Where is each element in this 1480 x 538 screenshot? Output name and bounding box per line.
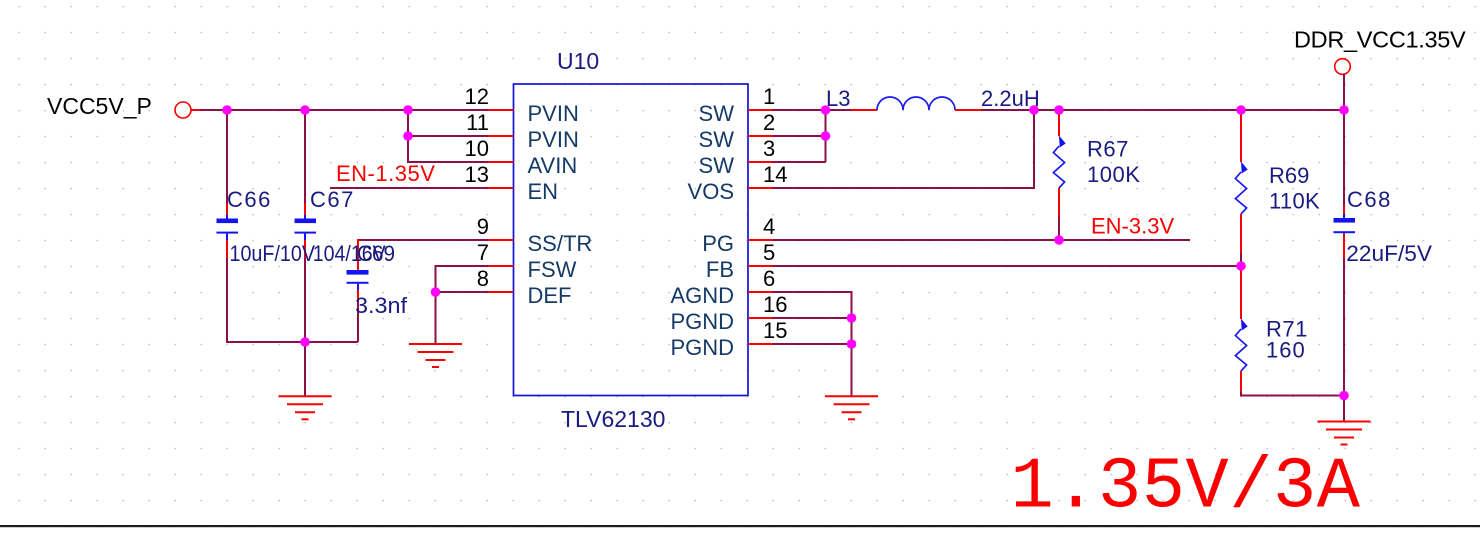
svg-text:EN-1.35V: EN-1.35V — [336, 161, 435, 186]
wire DDR_VCC terminal drop — [1343, 74, 1345, 110]
wire C66 top lead — [226, 110, 228, 203]
pin numbers left side — [465, 84, 489, 291]
pin numbers right side — [763, 84, 787, 343]
node junction (1241,266) — [1236, 261, 1246, 271]
wire PG net y=240 — [773, 239, 1190, 241]
wire VCC5V_P terminal stub — [191, 109, 201, 111]
svg-text:AVIN: AVIN — [528, 153, 578, 178]
svg-text:SW: SW — [699, 127, 735, 152]
svg-text:16: 16 — [763, 292, 787, 317]
svg-text:10uF/10V: 10uF/10V — [230, 241, 316, 266]
inductor L3 — [826, 86, 1040, 111]
svg-text:13: 13 — [465, 162, 489, 187]
node junction (435,292) — [431, 287, 441, 297]
wire to ground x=1344 — [1343, 395, 1345, 422]
svg-text:VCC5V_P: VCC5V_P — [47, 93, 152, 119]
svg-text:160: 160 — [1266, 338, 1306, 363]
resistor R69 — [1235, 110, 1320, 253]
wire AGND net pin6 — [773, 292, 852, 396]
svg-text:PVIN: PVIN — [528, 101, 579, 126]
wire C68 bottom lead — [1343, 234, 1345, 258]
svg-text:8: 8 — [477, 266, 489, 291]
svg-text:DDR_VCC1.35V: DDR_VCC1.35V — [1294, 27, 1466, 53]
svg-text:SW: SW — [699, 101, 735, 126]
node junction (1059,240) — [1054, 235, 1064, 245]
wire SS/TR net y=240 — [358, 239, 488, 241]
wire PVIN pin11 horizontal — [408, 135, 488, 137]
wire C69 bottom lead — [357, 285, 359, 300]
node junction (1344,395) — [1339, 391, 1349, 401]
svg-text:7: 7 — [477, 240, 489, 265]
svg-text:PG: PG — [702, 231, 734, 256]
power port DDR_VCC1.35V terminal circle — [1335, 59, 1351, 75]
resistor R67 — [1053, 110, 1140, 217]
ground GND3 — [825, 396, 878, 419]
op-amp U10 IC body TLV62130 — [514, 84, 749, 396]
resistor R71 — [1235, 267, 1307, 392]
wire EN net y=188 — [330, 187, 488, 189]
node junction (825,136) — [821, 131, 831, 141]
sheet border bottom line — [0, 525, 1480, 527]
svg-text:1.35V/3A: 1.35V/3A — [1011, 447, 1361, 529]
node junction (825,110) — [821, 105, 831, 115]
wire output rail y=110 — [982, 109, 1344, 111]
svg-text:PVIN: PVIN — [528, 127, 579, 152]
svg-text:11: 11 — [466, 110, 489, 135]
node junction (408,110) — [403, 105, 413, 115]
capacitor C68 — [1334, 187, 1433, 266]
node junction (851,344) — [847, 339, 857, 349]
wire PGND pin15 — [773, 343, 852, 345]
node junction (227,110) — [222, 105, 232, 115]
svg-text:3: 3 — [763, 136, 775, 161]
svg-text:R69: R69 — [1269, 163, 1309, 188]
svg-text:C66: C66 — [227, 187, 272, 212]
svg-text:1: 1 — [763, 84, 775, 109]
pin names right side — [670, 101, 734, 360]
wire C68 top lead — [1343, 110, 1345, 206]
svg-text:110K: 110K — [1269, 189, 1320, 214]
pin stubs right side U10 — [748, 110, 774, 344]
svg-text:DEF: DEF — [528, 283, 572, 308]
svg-text:SW: SW — [699, 153, 735, 178]
svg-text:TLV62130: TLV62130 — [561, 406, 665, 432]
svg-text:4: 4 — [763, 214, 775, 239]
node junction (1034,110) — [1029, 105, 1039, 115]
node junction (1059,110) — [1054, 105, 1064, 115]
wire PGND pin16 — [773, 317, 852, 319]
wire R67 bottom to PG net — [1058, 217, 1060, 240]
ground GND4 — [1318, 422, 1371, 445]
wire C67 bottom lead — [304, 234, 306, 258]
wire C69 top lead — [357, 239, 359, 270]
wire VOS net pin14 — [773, 110, 1034, 188]
ground GND2 — [409, 344, 462, 367]
svg-text:22uF/5V: 22uF/5V — [1346, 241, 1432, 266]
node junction (1241,110) — [1236, 105, 1246, 115]
wire PVIN feed vertical x=408 — [408, 110, 488, 162]
node junction (305,342) — [300, 337, 310, 347]
wire C66 bottom lead — [226, 234, 228, 258]
svg-text:C68: C68 — [1347, 187, 1392, 212]
svg-text:PGND: PGND — [670, 335, 734, 360]
svg-text:FB: FB — [706, 257, 734, 282]
wire SW pins 2,3 tie vertical x=825.5 — [773, 110, 826, 162]
ground GND1 — [279, 396, 332, 419]
node junction (1344,110) — [1339, 105, 1349, 115]
svg-text:10: 10 — [465, 136, 489, 161]
svg-text:9: 9 — [477, 214, 489, 239]
svg-text:2: 2 — [763, 110, 775, 135]
pin names left side — [528, 101, 593, 308]
svg-text:PGND: PGND — [670, 309, 734, 334]
wire FSW/DEF vertical x=435.5 — [436, 266, 489, 344]
node junction (305,110) — [300, 105, 310, 115]
svg-text:100K: 100K — [1087, 162, 1140, 187]
capacitor C67 — [295, 187, 386, 266]
wire SW net pin1 to inductor — [773, 109, 851, 111]
wire FB net y=266 — [773, 265, 1241, 267]
wire ground rail y=342 — [226, 341, 358, 343]
wire R71 bottom rail y=395 — [1241, 392, 1344, 396]
wire R69 bottom to FB net — [1240, 253, 1242, 266]
svg-text:SS/TR: SS/TR — [528, 231, 593, 256]
wire to ground x=305 — [304, 342, 306, 396]
svg-text:VOS: VOS — [688, 179, 734, 204]
svg-text:EN-3.3V: EN-3.3V — [1091, 214, 1174, 239]
node junction (408,136) — [403, 131, 413, 141]
svg-text:6: 6 — [763, 266, 775, 291]
svg-text:AGND: AGND — [670, 283, 734, 308]
svg-text:EN: EN — [528, 179, 559, 204]
node junction (851,318) — [847, 313, 857, 323]
svg-text:3.3nf: 3.3nf — [355, 293, 408, 318]
svg-text:U10: U10 — [557, 48, 599, 74]
svg-text:C69: C69 — [357, 241, 395, 266]
svg-text:FSW: FSW — [528, 257, 577, 282]
capacitor C66 — [217, 187, 316, 266]
pin stubs left side U10 — [488, 110, 514, 292]
svg-text:R67: R67 — [1087, 137, 1129, 162]
wire DEF pin8 horizontal — [436, 291, 489, 293]
capacitor C69 — [347, 241, 408, 318]
svg-text:C67: C67 — [310, 187, 355, 212]
svg-text:5: 5 — [763, 240, 775, 265]
svg-text:12: 12 — [465, 84, 489, 109]
svg-text:15: 15 — [763, 318, 787, 343]
wire C67 top lead — [304, 110, 306, 203]
power port VCC5V_P terminal circle — [175, 102, 191, 118]
svg-text:L3: L3 — [826, 86, 850, 111]
wire VCC5V main rail y=110 — [200, 109, 488, 111]
svg-text:14: 14 — [763, 162, 787, 187]
